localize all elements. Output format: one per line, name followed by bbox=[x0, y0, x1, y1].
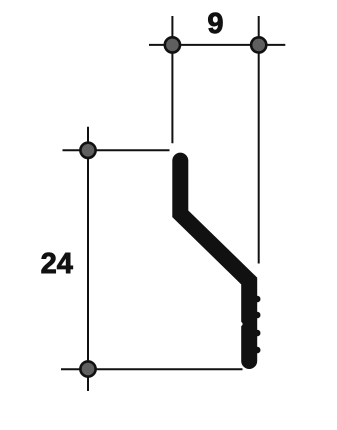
svg-text:9: 9 bbox=[207, 8, 223, 40]
extension line bottom (horizontal through lower-left datum) bbox=[61, 368, 243, 370]
anchoring bump 4 on profile right edge bbox=[254, 347, 261, 354]
anchoring bump 1 on profile right edge bbox=[254, 296, 261, 303]
datum circle lower-left bbox=[80, 361, 95, 376]
datum circle top-left bbox=[165, 37, 180, 52]
anchoring bump 2 on profile right edge bbox=[254, 312, 261, 319]
svg-text:24: 24 bbox=[41, 248, 73, 280]
dimension line 9 (horizontal, top) bbox=[149, 44, 285, 46]
datum circle top-right bbox=[251, 37, 266, 52]
extension line top (horizontal through upper-left datum) bbox=[63, 149, 170, 151]
datum circle upper-left bbox=[80, 143, 95, 158]
extension line right (vertical through top-right datum) bbox=[258, 16, 260, 264]
notch on profile left edge bbox=[238, 322, 242, 326]
dimension line 24 (vertical, left) bbox=[87, 127, 89, 391]
extension line left (vertical through top-left datum) bbox=[171, 16, 173, 143]
anchoring bump 3 on profile right edge bbox=[254, 330, 261, 337]
profile cross-section (thick Z-shaped bar) bbox=[180, 161, 249, 361]
